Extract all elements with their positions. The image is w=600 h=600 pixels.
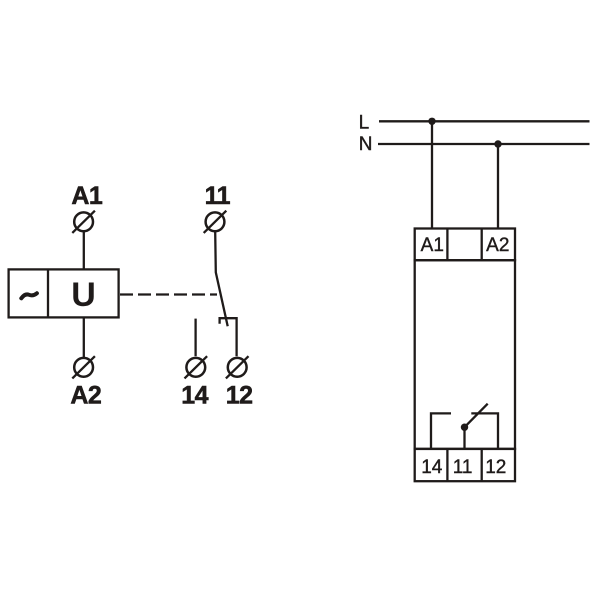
relay box U1 (9, 269, 119, 317)
svg-text:14: 14 (421, 457, 443, 478)
svg-text:14: 14 (181, 382, 208, 410)
svg-text:A2: A2 (486, 235, 509, 256)
svg-text:12: 12 (226, 382, 253, 410)
terminal A1 (72, 211, 95, 233)
wire relay box to A2 (83, 317, 85, 357)
internal contact blade (465, 404, 488, 428)
svg-text:11: 11 (453, 457, 473, 478)
contact 12 hook (NC) (220, 318, 237, 356)
svg-text:L: L (359, 113, 370, 134)
internal contact pivot (461, 424, 468, 431)
contact blade from 11 (215, 232, 228, 326)
wire L to A1 (431, 121, 433, 228)
internal contact: 12 bracket (471, 413, 498, 449)
terminal 12 (226, 356, 249, 378)
svg-text:A1: A1 (421, 235, 444, 256)
svg-text:12: 12 (485, 457, 506, 478)
terminal A2 (72, 356, 95, 378)
svg-text:A2: A2 (70, 382, 101, 410)
junction L (428, 118, 435, 125)
svg-text:U: U (71, 276, 96, 314)
junction N (494, 140, 501, 147)
terminal 11 (204, 211, 227, 233)
wire A1 to relay box (83, 232, 85, 270)
terminal 14 (185, 356, 208, 378)
device body (415, 260, 515, 449)
svg-text:A1: A1 (71, 182, 103, 210)
svg-text:11: 11 (205, 182, 231, 210)
internal contact stem to 11 (463, 427, 465, 449)
contact 14 stem (NO) (194, 319, 196, 357)
device bottom terminal row (415, 449, 515, 481)
wire L (379, 120, 590, 122)
device top terminal row (415, 229, 515, 261)
AC symbol ~ (21, 293, 37, 298)
internal contact: 14 bracket (431, 413, 451, 449)
dashed actuating link (120, 293, 217, 295)
svg-text:N: N (359, 134, 373, 155)
wire N to A2 (497, 144, 499, 229)
wire N (378, 143, 590, 145)
